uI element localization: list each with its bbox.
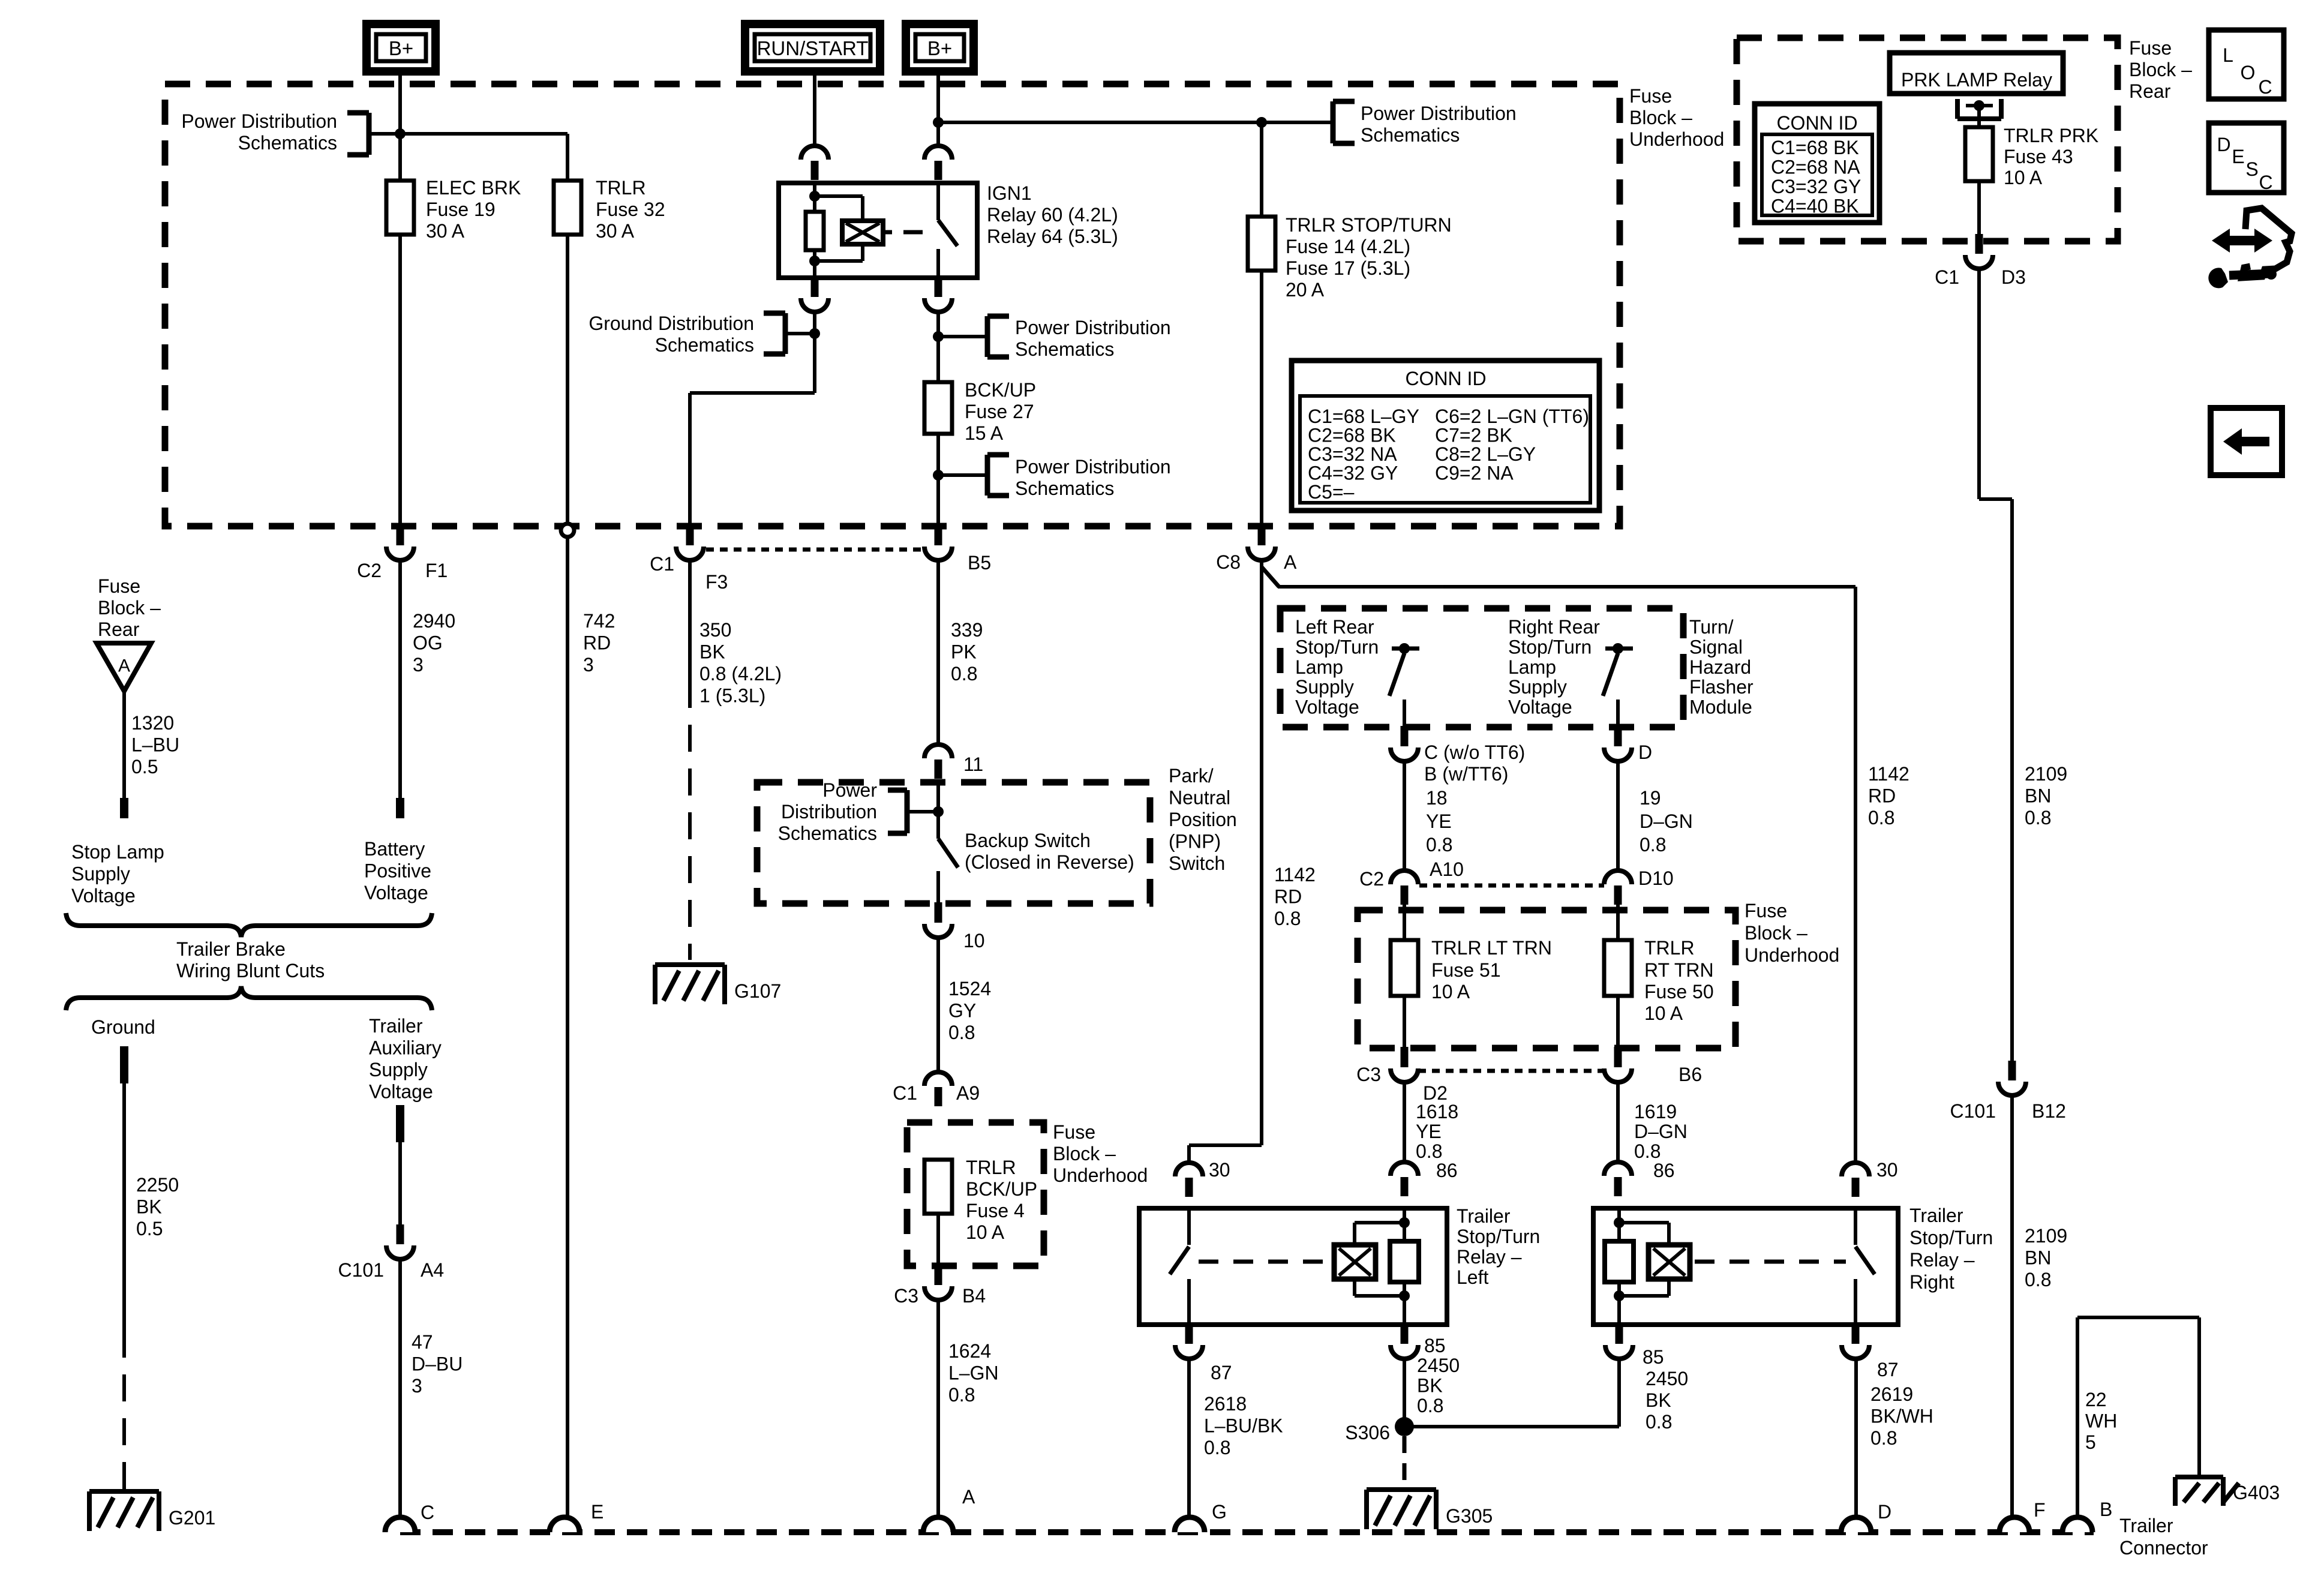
- svg-text:CONN ID: CONN ID: [1776, 112, 1857, 134]
- svg-text:C: C: [2259, 172, 2272, 193]
- svg-text:D–BU: D–BU: [412, 1353, 463, 1375]
- svg-text:Fuse 50: Fuse 50: [1644, 981, 1714, 1002]
- svg-text:YE: YE: [1416, 1121, 1442, 1142]
- svg-text:30: 30: [1209, 1159, 1230, 1181]
- svg-text:86: 86: [1436, 1160, 1458, 1181]
- svg-text:Park/: Park/: [1169, 765, 1214, 786]
- svg-text:Turn/: Turn/: [1689, 616, 1734, 638]
- svg-text:RD: RD: [583, 632, 611, 654]
- svg-text:Fuse 14 (4.2L): Fuse 14 (4.2L): [1286, 236, 1410, 257]
- svg-text:L: L: [2223, 44, 2233, 66]
- svg-text:Underhood: Underhood: [1053, 1164, 1148, 1186]
- svg-text:3: 3: [583, 654, 594, 676]
- svg-text:B5: B5: [968, 552, 991, 574]
- svg-text:G305: G305: [1446, 1505, 1493, 1527]
- svg-text:G403: G403: [2233, 1482, 2280, 1503]
- svg-text:Fuse 32: Fuse 32: [596, 199, 665, 220]
- svg-text:RUN/START: RUN/START: [757, 37, 869, 59]
- svg-text:Right Rear: Right Rear: [1508, 616, 1600, 638]
- svg-text:S306: S306: [1345, 1422, 1390, 1443]
- svg-text:Neutral: Neutral: [1169, 787, 1230, 809]
- svg-text:B (w/TT6): B (w/TT6): [1424, 763, 1508, 785]
- svg-text:Fuse: Fuse: [1053, 1121, 1095, 1143]
- svg-text:2619: 2619: [1870, 1383, 1913, 1405]
- svg-text:F3: F3: [705, 571, 728, 593]
- svg-text:1524: 1524: [948, 978, 991, 999]
- svg-text:Supply: Supply: [1508, 676, 1567, 698]
- svg-text:Block –: Block –: [1744, 922, 1807, 944]
- svg-text:YE: YE: [1426, 810, 1452, 832]
- svg-text:TRLR: TRLR: [1644, 937, 1695, 959]
- svg-text:A: A: [118, 656, 130, 676]
- svg-text:Wiring Blunt Cuts: Wiring Blunt Cuts: [176, 960, 325, 981]
- svg-text:47: 47: [412, 1331, 433, 1353]
- svg-text:Fuse: Fuse: [1744, 900, 1787, 921]
- svg-text:Power Distribution: Power Distribution: [181, 110, 337, 132]
- svg-text:0.8: 0.8: [2025, 807, 2051, 828]
- svg-text:Distribution: Distribution: [781, 801, 877, 822]
- svg-text:B: B: [2100, 1499, 2112, 1520]
- svg-text:30 A: 30 A: [596, 220, 635, 242]
- svg-text:0.8: 0.8: [1646, 1411, 1672, 1433]
- svg-text:ELEC BRK: ELEC BRK: [426, 177, 521, 199]
- svg-text:TRLR: TRLR: [966, 1157, 1016, 1178]
- svg-text:D–GN: D–GN: [1640, 810, 1693, 832]
- svg-text:RD: RD: [1868, 785, 1896, 807]
- svg-text:18: 18: [1426, 787, 1448, 809]
- svg-text:Block –: Block –: [1629, 107, 1692, 128]
- svg-text:10: 10: [963, 930, 985, 951]
- svg-text:2450: 2450: [1417, 1355, 1460, 1376]
- svg-text:0.8: 0.8: [1274, 908, 1301, 929]
- svg-text:0.8: 0.8: [1417, 1395, 1443, 1416]
- svg-text:Connector: Connector: [2119, 1537, 2208, 1559]
- svg-text:A4: A4: [421, 1259, 444, 1281]
- svg-text:Schematics: Schematics: [238, 132, 337, 154]
- svg-text:C1: C1: [650, 553, 674, 575]
- svg-text:G: G: [1212, 1501, 1227, 1523]
- svg-text:5: 5: [2085, 1431, 2096, 1453]
- svg-text:Voltage: Voltage: [369, 1081, 433, 1103]
- svg-text:Voltage: Voltage: [71, 885, 136, 906]
- svg-text:3: 3: [413, 654, 424, 676]
- svg-text:S: S: [2245, 158, 2258, 180]
- svg-text:IGN1: IGN1: [987, 182, 1032, 204]
- svg-text:Stop/Turn: Stop/Turn: [1909, 1227, 1993, 1248]
- svg-text:A9: A9: [956, 1082, 980, 1104]
- svg-text:Supply: Supply: [1295, 676, 1354, 698]
- svg-text:Power Distribution: Power Distribution: [1015, 317, 1171, 338]
- svg-text:C3: C3: [894, 1285, 918, 1307]
- svg-text:B12: B12: [2032, 1100, 2066, 1122]
- svg-text:C3=32 GY: C3=32 GY: [1771, 176, 1861, 197]
- svg-text:0.8: 0.8: [951, 663, 977, 685]
- svg-text:RD: RD: [1274, 886, 1302, 908]
- svg-text:87: 87: [1211, 1362, 1232, 1383]
- svg-text:Fuse: Fuse: [1629, 85, 1672, 107]
- svg-text:11: 11: [963, 754, 983, 775]
- svg-text:0.8 (4.2L): 0.8 (4.2L): [699, 663, 782, 685]
- svg-text:BK: BK: [699, 641, 725, 663]
- svg-text:Hazard: Hazard: [1689, 656, 1751, 678]
- svg-text:Voltage: Voltage: [364, 882, 428, 903]
- svg-text:0.8: 0.8: [1634, 1140, 1661, 1162]
- svg-text:A10: A10: [1430, 858, 1464, 880]
- svg-text:C1: C1: [1935, 266, 1959, 288]
- svg-text:1 (5.3L): 1 (5.3L): [699, 685, 765, 707]
- svg-text:10 A: 10 A: [1431, 981, 1470, 1002]
- svg-text:Relay 64 (5.3L): Relay 64 (5.3L): [987, 226, 1118, 247]
- svg-text:Lamp: Lamp: [1295, 656, 1343, 678]
- svg-text:Relay –: Relay –: [1457, 1246, 1522, 1268]
- svg-text:0.5: 0.5: [136, 1218, 163, 1239]
- svg-text:1320: 1320: [131, 712, 174, 734]
- svg-text:86: 86: [1653, 1160, 1675, 1181]
- svg-text:C2: C2: [1359, 868, 1384, 890]
- svg-text:C9=2 NA: C9=2 NA: [1435, 463, 1514, 484]
- svg-text:D10: D10: [1638, 867, 1674, 889]
- svg-text:PK: PK: [951, 641, 977, 663]
- svg-text:E: E: [591, 1501, 603, 1523]
- svg-text:Left Rear: Left Rear: [1295, 616, 1374, 638]
- svg-text:A: A: [962, 1486, 975, 1508]
- svg-text:Fuse 17 (5.3L): Fuse 17 (5.3L): [1286, 257, 1410, 279]
- svg-text:0.8: 0.8: [1426, 834, 1452, 855]
- svg-text:Supply: Supply: [71, 863, 130, 885]
- svg-text:Block –: Block –: [1053, 1143, 1116, 1164]
- svg-text:0.8: 0.8: [948, 1022, 975, 1043]
- svg-text:Trailer: Trailer: [369, 1015, 423, 1037]
- svg-text:Block –: Block –: [98, 597, 161, 619]
- svg-text:85: 85: [1424, 1335, 1446, 1356]
- svg-text:0.8: 0.8: [2025, 1269, 2051, 1290]
- svg-text:B4: B4: [962, 1285, 986, 1307]
- svg-text:2109: 2109: [2025, 763, 2067, 785]
- svg-text:Backup Switch: Backup Switch: [965, 830, 1091, 851]
- svg-text:B6: B6: [1679, 1064, 1702, 1085]
- svg-text:Stop/Turn: Stop/Turn: [1457, 1226, 1540, 1247]
- svg-text:B+: B+: [927, 37, 952, 59]
- svg-text:Schematics: Schematics: [1015, 478, 1114, 499]
- svg-text:Rear: Rear: [2129, 80, 2171, 102]
- svg-text:20 A: 20 A: [1286, 279, 1325, 301]
- svg-text:(PNP): (PNP): [1169, 831, 1221, 852]
- svg-text:2618: 2618: [1204, 1393, 1247, 1415]
- svg-text:F1: F1: [425, 560, 448, 581]
- svg-text:D: D: [2217, 134, 2230, 155]
- svg-text:Stop/Turn: Stop/Turn: [1508, 636, 1592, 658]
- svg-text:Auxiliary: Auxiliary: [369, 1037, 442, 1059]
- svg-text:C3: C3: [1356, 1064, 1381, 1085]
- svg-text:RT TRN: RT TRN: [1644, 959, 1714, 981]
- svg-text:BK: BK: [1417, 1375, 1443, 1397]
- svg-text:BK/WH: BK/WH: [1870, 1406, 1933, 1427]
- svg-text:Fuse 4: Fuse 4: [966, 1200, 1025, 1221]
- svg-text:C: C: [2258, 76, 2272, 98]
- svg-text:L–BU: L–BU: [131, 734, 179, 756]
- svg-text:Right: Right: [1909, 1271, 1954, 1293]
- svg-text:Schematics: Schematics: [778, 822, 877, 844]
- svg-text:CONN ID: CONN ID: [1405, 368, 1486, 389]
- svg-text:O: O: [2241, 62, 2256, 83]
- svg-text:TRLR STOP/TURN: TRLR STOP/TURN: [1286, 214, 1452, 236]
- svg-text:C (w/o TT6): C (w/o TT6): [1424, 742, 1525, 763]
- svg-text:0.8: 0.8: [1868, 807, 1894, 828]
- svg-text:1618: 1618: [1416, 1101, 1458, 1122]
- svg-text:0.8: 0.8: [1640, 834, 1666, 855]
- svg-text:Trailer: Trailer: [1457, 1205, 1511, 1227]
- svg-text:0.8: 0.8: [1870, 1427, 1897, 1449]
- svg-text:Trailer: Trailer: [1909, 1205, 1963, 1226]
- svg-text:C101: C101: [338, 1259, 385, 1281]
- svg-text:Ground: Ground: [91, 1016, 155, 1038]
- svg-text:87: 87: [1877, 1359, 1899, 1380]
- svg-text:Fuse: Fuse: [98, 575, 140, 597]
- svg-text:Voltage: Voltage: [1508, 697, 1572, 718]
- svg-text:Flasher: Flasher: [1689, 676, 1753, 698]
- svg-text:Ground Distribution: Ground Distribution: [588, 313, 754, 334]
- svg-text:0.8: 0.8: [1204, 1437, 1230, 1458]
- svg-text:E: E: [2232, 146, 2244, 167]
- svg-text:D3: D3: [2001, 266, 2026, 288]
- svg-text:Signal: Signal: [1689, 636, 1743, 658]
- svg-text:Block –: Block –: [2129, 59, 2192, 80]
- svg-text:BCK/UP: BCK/UP: [966, 1178, 1037, 1200]
- svg-text:2250: 2250: [136, 1174, 179, 1196]
- svg-text:BN: BN: [2025, 785, 2051, 807]
- svg-text:Stop/Turn: Stop/Turn: [1295, 636, 1379, 658]
- svg-text:0.8: 0.8: [1416, 1140, 1442, 1162]
- svg-text:BCK/UP: BCK/UP: [965, 379, 1036, 401]
- svg-text:742: 742: [583, 610, 615, 632]
- svg-text:BK: BK: [1646, 1389, 1671, 1411]
- svg-text:(Closed in Reverse): (Closed in Reverse): [965, 851, 1134, 873]
- svg-text:G107: G107: [734, 980, 781, 1002]
- svg-text:F: F: [2034, 1499, 2046, 1521]
- svg-text:D: D: [1878, 1501, 1891, 1523]
- svg-text:Position: Position: [1169, 809, 1237, 830]
- svg-text:BN: BN: [2025, 1247, 2051, 1269]
- svg-text:L–GN: L–GN: [948, 1362, 999, 1384]
- svg-text:Trailer Brake: Trailer Brake: [176, 938, 286, 960]
- svg-text:10 A: 10 A: [2004, 167, 2043, 188]
- svg-text:339: 339: [951, 619, 983, 641]
- svg-text:Voltage: Voltage: [1295, 697, 1359, 718]
- svg-text:C: C: [421, 1502, 434, 1523]
- svg-text:22: 22: [2085, 1389, 2107, 1410]
- svg-text:Rear: Rear: [98, 619, 140, 640]
- svg-text:Positive: Positive: [364, 860, 431, 882]
- svg-text:10 A: 10 A: [966, 1221, 1005, 1243]
- svg-text:GY: GY: [948, 1000, 976, 1022]
- svg-text:C101: C101: [1950, 1100, 1996, 1122]
- svg-text:1624: 1624: [948, 1340, 991, 1362]
- svg-text:Underhood: Underhood: [1744, 944, 1839, 966]
- svg-text:85: 85: [1643, 1346, 1664, 1368]
- svg-text:C1=68 BK: C1=68 BK: [1771, 137, 1859, 158]
- svg-text:C1: C1: [893, 1082, 917, 1104]
- svg-text:Underhood: Underhood: [1629, 128, 1724, 150]
- svg-text:Fuse: Fuse: [2129, 37, 2172, 59]
- svg-text:L–BU/BK: L–BU/BK: [1204, 1415, 1283, 1437]
- svg-text:19: 19: [1640, 787, 1661, 809]
- svg-text:2940: 2940: [413, 610, 455, 632]
- svg-text:D–GN: D–GN: [1634, 1121, 1688, 1142]
- svg-text:1142: 1142: [1274, 864, 1316, 885]
- svg-text:Battery: Battery: [364, 838, 425, 860]
- svg-text:Left: Left: [1457, 1266, 1488, 1288]
- svg-text:2109: 2109: [2025, 1225, 2067, 1247]
- svg-text:C2=68 NA: C2=68 NA: [1771, 157, 1860, 178]
- svg-text:Fuse 43: Fuse 43: [2004, 146, 2073, 167]
- svg-text:C5=–: C5=–: [1308, 481, 1355, 503]
- svg-text:PRK LAMP Relay: PRK LAMP Relay: [1901, 69, 2052, 91]
- svg-text:A: A: [1284, 551, 1297, 573]
- svg-text:0.8: 0.8: [948, 1384, 975, 1406]
- svg-text:1142: 1142: [1868, 763, 1909, 785]
- svg-text:Supply: Supply: [369, 1059, 428, 1080]
- svg-text:C8: C8: [1216, 551, 1241, 573]
- svg-text:Power Distribution: Power Distribution: [1361, 103, 1517, 124]
- svg-text:350: 350: [699, 619, 731, 641]
- svg-text:TRLR PRK: TRLR PRK: [2004, 125, 2098, 146]
- svg-text:3: 3: [412, 1375, 422, 1397]
- svg-text:10 A: 10 A: [1644, 1002, 1683, 1024]
- svg-text:Fuse 51: Fuse 51: [1431, 959, 1501, 981]
- svg-text:30: 30: [1876, 1159, 1898, 1181]
- svg-text:Power: Power: [822, 779, 877, 801]
- svg-text:Schematics: Schematics: [1361, 124, 1460, 146]
- svg-text:Trailer: Trailer: [2119, 1515, 2173, 1536]
- svg-text:B+: B+: [389, 37, 413, 59]
- svg-text:15 A: 15 A: [965, 422, 1004, 444]
- svg-text:Relay 60 (4.2L): Relay 60 (4.2L): [987, 204, 1118, 226]
- svg-text:WH: WH: [2085, 1410, 2117, 1432]
- svg-text:Lamp: Lamp: [1508, 656, 1556, 678]
- svg-text:Power Distribution: Power Distribution: [1015, 456, 1171, 478]
- svg-text:TRLR LT TRN: TRLR LT TRN: [1431, 937, 1552, 959]
- svg-text:Switch: Switch: [1169, 852, 1225, 874]
- svg-text:Fuse 19: Fuse 19: [426, 199, 496, 220]
- svg-text:D: D: [1638, 742, 1652, 763]
- svg-text:C4=40 BK: C4=40 BK: [1771, 196, 1859, 217]
- svg-text:Stop Lamp: Stop Lamp: [71, 841, 164, 863]
- svg-text:OG: OG: [413, 632, 443, 654]
- svg-text:0.5: 0.5: [131, 756, 158, 778]
- svg-text:C2: C2: [357, 560, 382, 581]
- svg-text:Relay –: Relay –: [1909, 1249, 1975, 1271]
- svg-text:G201: G201: [169, 1507, 215, 1529]
- svg-text:1619: 1619: [1634, 1101, 1677, 1122]
- svg-text:30 A: 30 A: [426, 220, 465, 242]
- svg-text:TRLR: TRLR: [596, 177, 646, 199]
- svg-text:BK: BK: [136, 1196, 162, 1218]
- svg-text:Schematics: Schematics: [655, 334, 754, 356]
- svg-text:Module: Module: [1689, 697, 1752, 718]
- svg-text:Fuse 27: Fuse 27: [965, 401, 1034, 422]
- svg-text:Schematics: Schematics: [1015, 338, 1114, 360]
- svg-text:2450: 2450: [1646, 1368, 1688, 1389]
